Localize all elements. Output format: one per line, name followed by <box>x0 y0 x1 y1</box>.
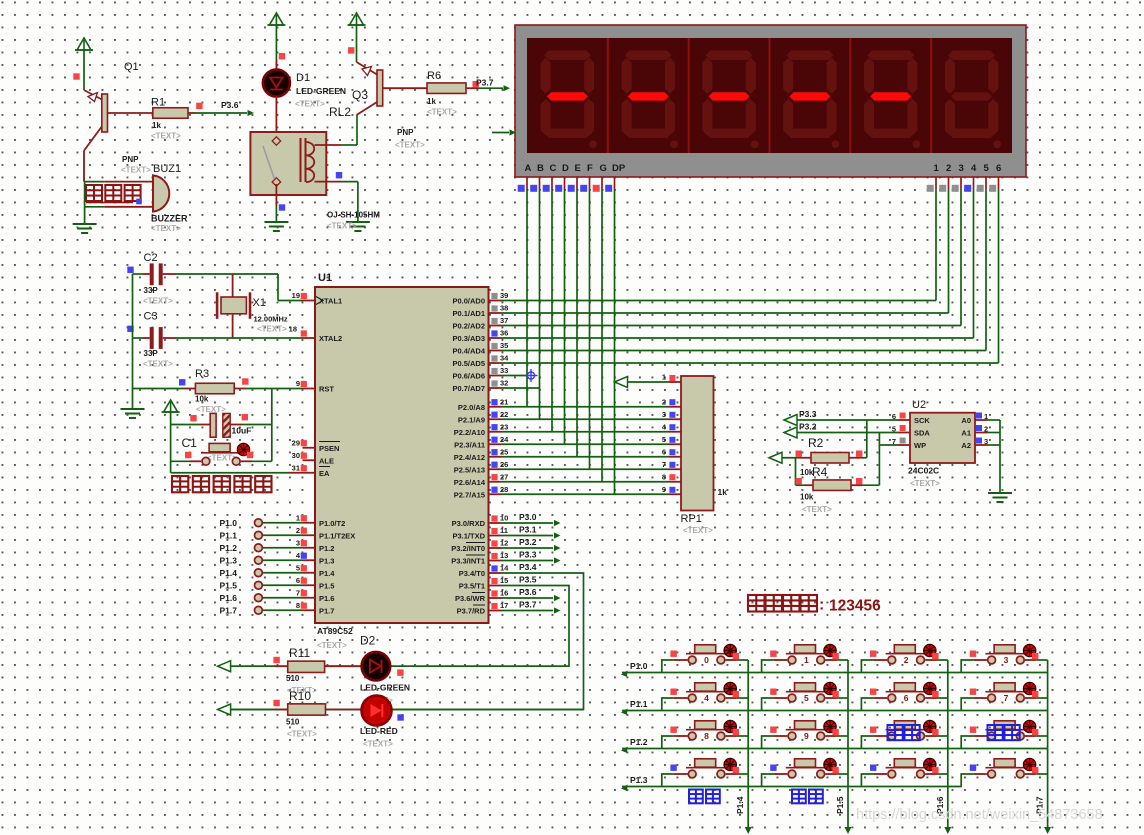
svg-text:25: 25 <box>500 447 508 456</box>
svg-text:5: 5 <box>296 563 300 572</box>
svg-text:P1.6: P1.6 <box>319 594 334 603</box>
svg-text:14: 14 <box>500 564 509 573</box>
svg-text:10k: 10k <box>195 395 209 404</box>
svg-text:5: 5 <box>662 435 666 444</box>
svg-text:12.00MHz: 12.00MHz <box>254 315 288 324</box>
svg-text:WP: WP <box>914 441 926 450</box>
svg-text:6: 6 <box>296 576 300 585</box>
svg-text:38: 38 <box>500 304 508 313</box>
svg-text:510: 510 <box>286 718 300 727</box>
svg-text:8: 8 <box>662 472 666 481</box>
svg-text:<TEXT>: <TEXT> <box>395 141 425 150</box>
svg-text:P3.0/RXD: P3.0/RXD <box>452 519 486 528</box>
svg-text:5: 5 <box>984 163 990 174</box>
svg-text:36: 36 <box>500 329 508 338</box>
svg-text:P1.1: P1.1 <box>630 699 648 709</box>
svg-text:P0.4/AD4: P0.4/AD4 <box>452 347 485 356</box>
svg-text:P3.7/RD: P3.7/RD <box>457 607 486 616</box>
svg-text:P1.3: P1.3 <box>220 555 238 565</box>
svg-text:9: 9 <box>662 485 666 494</box>
svg-text:P2.5/A13: P2.5/A13 <box>454 465 485 474</box>
svg-text:P3.7: P3.7 <box>519 600 537 610</box>
svg-text:LED-RED: LED-RED <box>360 726 398 736</box>
svg-text:P3.7: P3.7 <box>476 78 494 88</box>
svg-text:31: 31 <box>292 463 300 472</box>
svg-text:22: 22 <box>500 410 508 419</box>
svg-text:P3.2/INT0: P3.2/INT0 <box>451 544 485 553</box>
svg-text:P1.5: P1.5 <box>835 796 845 814</box>
svg-text:P3.6/WR: P3.6/WR <box>455 594 486 603</box>
svg-text:R4: R4 <box>812 465 828 479</box>
svg-text:BUZZER: BUZZER <box>151 214 188 224</box>
svg-text:R2: R2 <box>808 436 824 450</box>
svg-text:R6: R6 <box>427 70 441 82</box>
svg-text:P1.6: P1.6 <box>220 593 238 603</box>
svg-text:P1.7: P1.7 <box>319 606 334 615</box>
svg-text:A2: A2 <box>961 441 971 450</box>
svg-text:<TEXT>: <TEXT> <box>151 132 181 141</box>
svg-text:1: 1 <box>662 373 666 382</box>
svg-text:6: 6 <box>904 693 909 703</box>
svg-text:P3.0: P3.0 <box>519 512 537 522</box>
svg-text:BUZ1: BUZ1 <box>153 163 181 175</box>
svg-text:P1.2: P1.2 <box>319 544 334 553</box>
svg-text:19: 19 <box>292 291 300 300</box>
svg-text:33P: 33P <box>144 349 159 358</box>
svg-text:<TEXT>: <TEXT> <box>143 360 173 369</box>
svg-text:P0.3/AD3: P0.3/AD3 <box>452 334 485 343</box>
svg-text:30: 30 <box>292 451 300 460</box>
svg-text:RP1: RP1 <box>681 513 702 525</box>
svg-text:7: 7 <box>1004 693 1009 703</box>
svg-text:C: C <box>550 163 557 174</box>
svg-text:LED-GREEN: LED-GREEN <box>296 86 346 96</box>
svg-text:<TEXT>: <TEXT> <box>143 297 173 306</box>
svg-text:PSEN: PSEN <box>319 444 339 453</box>
svg-text:13: 13 <box>500 551 508 560</box>
svg-text:33: 33 <box>500 366 508 375</box>
svg-text:P1.0/T2: P1.0/T2 <box>319 519 345 528</box>
svg-text:9: 9 <box>804 731 809 741</box>
svg-text:https://blog.csdn.net/weixin_5: https://blog.csdn.net/weixin_54873658 <box>856 807 1103 823</box>
svg-text:P3.5: P3.5 <box>519 575 537 585</box>
svg-text:10uF: 10uF <box>232 426 252 436</box>
svg-text:R1: R1 <box>151 97 165 109</box>
svg-text:<TEXT>: <TEXT> <box>802 505 832 514</box>
svg-text:29: 29 <box>292 438 300 447</box>
svg-text:18: 18 <box>289 325 297 334</box>
svg-text:P3.3/INT1: P3.3/INT1 <box>451 557 485 566</box>
svg-text:DP: DP <box>612 163 626 174</box>
svg-text:E: E <box>575 163 581 174</box>
svg-text:P0.0/AD0: P0.0/AD0 <box>452 297 485 306</box>
svg-text:D: D <box>562 163 569 174</box>
svg-text:XTAL2: XTAL2 <box>319 334 342 343</box>
svg-text:P1.5: P1.5 <box>319 581 334 590</box>
svg-text:P1.4: P1.4 <box>319 569 335 578</box>
svg-text:10k: 10k <box>800 493 814 502</box>
svg-text:<TEXT>: <TEXT> <box>427 108 457 117</box>
svg-text:1k: 1k <box>152 121 161 130</box>
svg-text:<TEXT>: <TEXT> <box>363 740 393 749</box>
svg-text:AT89C52: AT89C52 <box>317 626 353 636</box>
svg-text:12: 12 <box>500 539 508 548</box>
svg-text:P1.1: P1.1 <box>220 530 238 540</box>
svg-text:SDA: SDA <box>914 429 930 438</box>
svg-text:C1: C1 <box>182 436 198 450</box>
svg-text:P1.4: P1.4 <box>220 568 238 578</box>
svg-text:21: 21 <box>500 397 508 406</box>
svg-text:A1: A1 <box>961 429 971 438</box>
svg-text:R3: R3 <box>195 368 209 380</box>
svg-text:P1.0: P1.0 <box>630 661 648 671</box>
svg-text:P0.6/AD6: P0.6/AD6 <box>452 372 485 381</box>
svg-text:P2.7/A15: P2.7/A15 <box>454 490 485 499</box>
svg-text:P0.1/AD1: P0.1/AD1 <box>452 309 485 318</box>
svg-text:P0.5/AD5: P0.5/AD5 <box>452 359 485 368</box>
svg-text:11: 11 <box>500 526 508 535</box>
svg-text:26: 26 <box>500 460 508 469</box>
svg-text:16: 16 <box>500 589 508 598</box>
svg-text:G: G <box>600 163 607 174</box>
svg-text:2: 2 <box>662 397 666 406</box>
svg-text:<TEXT>: <TEXT> <box>121 166 151 175</box>
svg-text:4: 4 <box>971 163 977 174</box>
svg-text:4: 4 <box>704 693 709 703</box>
svg-text:7: 7 <box>296 588 300 597</box>
svg-text:123456: 123456 <box>829 598 881 615</box>
svg-text:ALE: ALE <box>319 456 334 465</box>
svg-text:23: 23 <box>500 422 508 431</box>
svg-text:7: 7 <box>662 460 666 469</box>
svg-text:6: 6 <box>996 163 1001 174</box>
svg-text:X1: X1 <box>253 297 266 309</box>
svg-text:F: F <box>587 163 593 174</box>
svg-text:P1.2: P1.2 <box>630 737 648 747</box>
svg-text:35: 35 <box>500 341 508 350</box>
svg-text:9: 9 <box>296 379 300 388</box>
svg-text:P3.4/T0: P3.4/T0 <box>459 569 485 578</box>
svg-text:EA: EA <box>319 469 330 478</box>
svg-text:RST: RST <box>319 385 334 394</box>
svg-text:P3.6: P3.6 <box>221 100 239 110</box>
svg-text:P1.0: P1.0 <box>220 518 238 528</box>
svg-text:0: 0 <box>704 655 709 665</box>
svg-text:<TEXT>: <TEXT> <box>287 730 317 739</box>
svg-text:C2: C2 <box>144 252 158 264</box>
svg-text:2: 2 <box>296 526 300 535</box>
svg-text:OJ-SH-105HM: OJ-SH-105HM <box>327 211 380 220</box>
svg-text:27: 27 <box>500 472 508 481</box>
svg-text:P3.5/T1: P3.5/T1 <box>459 582 485 591</box>
svg-text:P2.4/A12: P2.4/A12 <box>454 453 485 462</box>
svg-text:PNP: PNP <box>122 155 139 164</box>
svg-text:P3.1/TXD: P3.1/TXD <box>452 532 485 541</box>
svg-text:P2.1/A9: P2.1/A9 <box>458 415 485 424</box>
svg-text:<TEXT>: <TEXT> <box>257 325 287 334</box>
svg-text:P3.3: P3.3 <box>519 550 537 560</box>
svg-text:37: 37 <box>500 316 508 325</box>
svg-text:1: 1 <box>934 163 940 174</box>
svg-text:P3.4: P3.4 <box>519 562 537 572</box>
svg-text:SCK: SCK <box>914 416 930 425</box>
svg-text:P2.2/A10: P2.2/A10 <box>454 428 485 437</box>
svg-text:24: 24 <box>500 435 509 444</box>
svg-text:B: B <box>537 163 544 174</box>
svg-text:17: 17 <box>500 601 508 610</box>
svg-text:D1: D1 <box>296 72 310 84</box>
svg-text:P1.5: P1.5 <box>220 580 238 590</box>
svg-text:A: A <box>525 163 532 174</box>
svg-text:RL2: RL2 <box>329 105 351 119</box>
svg-text:P0.2/AD2: P0.2/AD2 <box>452 322 485 331</box>
svg-text:XTAL1: XTAL1 <box>319 297 342 306</box>
svg-text:P1.7: P1.7 <box>220 605 238 615</box>
svg-text:3: 3 <box>662 410 666 419</box>
svg-text:1: 1 <box>296 513 300 522</box>
svg-text:LED-GREEN: LED-GREEN <box>360 683 410 693</box>
svg-text:D2: D2 <box>360 634 376 648</box>
svg-text:R10: R10 <box>289 689 311 703</box>
svg-text:6: 6 <box>662 447 666 456</box>
svg-text:<TEXT>: <TEXT> <box>295 100 325 109</box>
svg-text:P3.6: P3.6 <box>519 587 537 597</box>
svg-text:U2: U2 <box>912 399 926 411</box>
svg-text:1: 1 <box>804 655 809 665</box>
svg-text:10: 10 <box>500 514 508 523</box>
svg-text:1k: 1k <box>718 487 728 497</box>
svg-text:P2.0/A8: P2.0/A8 <box>458 403 485 412</box>
svg-text:P0.7/AD7: P0.7/AD7 <box>452 384 485 393</box>
svg-text:Q1: Q1 <box>124 61 139 73</box>
svg-text:PNP: PNP <box>397 128 414 137</box>
svg-text:<TEXT>: <TEXT> <box>317 641 347 650</box>
svg-text:P3.2: P3.2 <box>519 537 537 547</box>
svg-text:P1.3: P1.3 <box>319 556 334 565</box>
svg-text:C3: C3 <box>144 311 158 323</box>
svg-text:P2.3/A11: P2.3/A11 <box>454 440 485 449</box>
svg-text:510: 510 <box>286 674 300 683</box>
svg-text:U1: U1 <box>318 272 332 284</box>
svg-text:<TEXT>: <TEXT> <box>683 526 713 535</box>
svg-text:3: 3 <box>959 163 964 174</box>
svg-text:3: 3 <box>296 538 300 547</box>
svg-text:39: 39 <box>500 291 508 300</box>
svg-text:P1.3: P1.3 <box>630 775 648 785</box>
svg-text:34: 34 <box>500 354 509 363</box>
svg-text:P2.6/A14: P2.6/A14 <box>454 478 486 487</box>
svg-text:8: 8 <box>704 731 709 741</box>
svg-text:<TEXT>: <TEXT> <box>910 479 940 488</box>
svg-text:3: 3 <box>1004 655 1009 665</box>
svg-text:8: 8 <box>296 601 300 610</box>
svg-text:2: 2 <box>904 655 909 665</box>
svg-text:2: 2 <box>946 163 951 174</box>
svg-text:P1.4: P1.4 <box>735 796 745 814</box>
svg-text:R11: R11 <box>289 646 310 660</box>
svg-text:<TEXT>: <TEXT> <box>151 224 181 233</box>
svg-text:24C02C: 24C02C <box>908 466 939 476</box>
svg-text::: : <box>819 597 824 614</box>
svg-text:5: 5 <box>804 693 809 703</box>
svg-text:P1.2: P1.2 <box>220 543 238 553</box>
svg-text:P3.1: P3.1 <box>519 525 537 535</box>
svg-text:33P: 33P <box>144 286 159 295</box>
svg-text:32: 32 <box>500 379 508 388</box>
svg-text:P3.3: P3.3 <box>799 409 817 419</box>
svg-text:P1.1/T2EX: P1.1/T2EX <box>319 531 355 540</box>
svg-text:<TEXT>: <TEXT> <box>327 222 357 231</box>
svg-text:15: 15 <box>500 576 508 585</box>
svg-text:A0: A0 <box>961 416 971 425</box>
svg-text:P3.2: P3.2 <box>799 422 817 432</box>
svg-text:28: 28 <box>500 485 508 494</box>
svg-text:Q3: Q3 <box>352 88 368 102</box>
svg-text:1k: 1k <box>427 97 436 106</box>
